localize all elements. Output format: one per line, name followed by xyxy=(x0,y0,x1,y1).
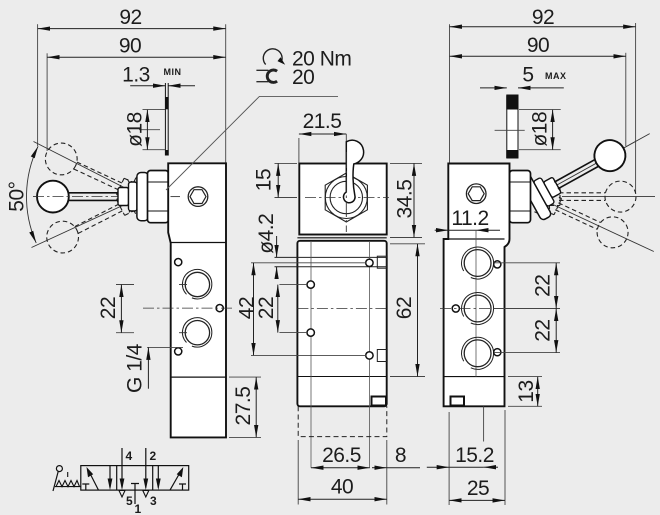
centerline horizontal front xyxy=(305,197,389,199)
dim 22 center xyxy=(277,285,279,333)
mounting nut (left view) xyxy=(148,171,169,223)
side port top (G 1/4) xyxy=(182,269,211,298)
svg-text:5: 5 xyxy=(522,64,533,87)
dim o4.2 leader arrows xyxy=(276,236,278,257)
lever rays right xyxy=(536,134,655,252)
svg-text:G 1/4: G 1/4 xyxy=(124,343,147,393)
left cell blocked port xyxy=(82,484,89,490)
dashed sub-base outline xyxy=(298,406,387,436)
svg-text:8: 8 xyxy=(395,444,406,467)
svg-text:40: 40 xyxy=(331,476,353,499)
svg-text:ø18: ø18 xyxy=(529,112,552,147)
side tab top right xyxy=(377,256,387,268)
svg-text:90: 90 xyxy=(527,34,549,57)
dims 34.5 / 62 xyxy=(390,163,425,376)
exhaust 3 triangle xyxy=(143,491,149,498)
svg-text:11.2: 11.2 xyxy=(451,207,488,230)
dim o18 right xyxy=(495,110,561,150)
svg-text:92: 92 xyxy=(119,6,141,29)
dim 15 xyxy=(277,163,279,197)
collar A xyxy=(118,188,129,206)
solid lever right (raised) xyxy=(519,127,636,221)
port 2 line xyxy=(145,448,147,488)
dashed lever position up xyxy=(38,179,147,264)
svg-text:5: 5 xyxy=(126,494,133,508)
svg-text:22: 22 xyxy=(255,297,278,319)
port 4 line xyxy=(121,448,123,488)
svg-text:3: 3 xyxy=(150,494,157,508)
dashed lever right down xyxy=(534,185,633,253)
svg-text:15: 15 xyxy=(253,169,276,191)
lever actuator symbol xyxy=(56,466,62,472)
dim 27.5 xyxy=(229,377,261,437)
dim 90 left: dimension line xyxy=(47,56,226,58)
side port bottom (G 1/4) xyxy=(182,318,211,347)
svg-text:2: 2 xyxy=(150,449,157,463)
dim 92 left: dimension line xyxy=(38,28,226,30)
dashed lever right horizontal xyxy=(541,181,636,212)
exhaust 5 triangle xyxy=(119,491,125,498)
svg-text:25: 25 xyxy=(467,477,489,500)
wrench symbol xyxy=(256,70,277,82)
dim 92 left: extension lines xyxy=(38,24,226,162)
extension lines 42/22 xyxy=(251,263,366,356)
dim 15 extensions xyxy=(275,162,298,164)
svg-text:15.2: 15.2 xyxy=(455,444,494,467)
label plate xyxy=(372,397,387,406)
mounting nut right view xyxy=(510,171,531,223)
dashed lever position down xyxy=(37,132,146,214)
pilot hole lines xyxy=(275,256,387,258)
label plate right xyxy=(451,397,465,406)
svg-text:1: 1 xyxy=(135,502,142,515)
dims 22/22 right xyxy=(494,263,560,353)
body centerline xyxy=(143,307,232,309)
svg-text:22: 22 xyxy=(97,297,120,319)
right cell arrow xyxy=(170,470,182,490)
centerline vertical front xyxy=(345,152,347,232)
top section body (front) xyxy=(299,164,386,235)
svg-text:MIN: MIN xyxy=(164,67,182,77)
port column line xyxy=(475,230,477,376)
right view: redraw edges xyxy=(444,238,505,240)
50 deg arc xyxy=(26,146,38,243)
dim 13 xyxy=(508,377,542,407)
torque symbol arc xyxy=(263,49,282,65)
ports right view xyxy=(462,247,494,279)
left cell down flow xyxy=(109,466,111,488)
lever ball + shaft front (teardrop) xyxy=(343,140,363,203)
hex socket right view xyxy=(466,184,486,204)
dims 92/90 right: extensions xyxy=(450,23,636,193)
screw holes left view xyxy=(175,259,182,266)
svg-text:21.5: 21.5 xyxy=(303,110,342,133)
right cell down flow xyxy=(157,466,159,488)
port 1 line xyxy=(131,484,139,505)
valve body (right view) xyxy=(444,164,510,407)
svg-text:MAX: MAX xyxy=(545,71,567,81)
svg-text:ø4.2: ø4.2 xyxy=(255,214,278,254)
panel bar (right view, 5 thick) xyxy=(506,95,518,158)
dim o18 left: extensions xyxy=(139,110,165,150)
dim o18 left: dimension line xyxy=(146,110,148,150)
svg-text:92: 92 xyxy=(532,6,554,29)
screws right view xyxy=(494,261,501,268)
valve body (left view) xyxy=(168,163,226,437)
svg-text:27.5: 27.5 xyxy=(232,387,255,426)
dim 42 xyxy=(253,263,255,356)
end cap line xyxy=(171,376,226,378)
right cell blocked port xyxy=(0,0,1,1)
centerline lower body xyxy=(297,308,386,310)
panel bar (left view, 1.3 thick) xyxy=(165,83,169,156)
dim 22 left view xyxy=(116,285,134,333)
flange xyxy=(137,173,149,221)
svg-text:50°: 50° xyxy=(6,181,29,211)
dim 21.5 xyxy=(299,133,346,135)
side tab bottom right xyxy=(377,350,387,362)
svg-text:ø18: ø18 xyxy=(124,112,147,147)
G 1/4 leader xyxy=(147,346,183,348)
leader line to nut xyxy=(166,96,338,190)
svg-text:20: 20 xyxy=(292,66,314,89)
mid interface line xyxy=(297,376,386,378)
nut circles xyxy=(325,177,367,219)
dim 1.3 MIN: dimension line with outside arrows xyxy=(130,85,195,87)
dim 5 MAX xyxy=(480,87,564,89)
lower body (center view) xyxy=(297,241,386,406)
lever ball xyxy=(37,181,69,213)
svg-text:62: 62 xyxy=(393,297,416,319)
svg-text:22: 22 xyxy=(532,319,555,341)
svg-text:34.5: 34.5 xyxy=(394,180,417,219)
svg-text:26.5: 26.5 xyxy=(322,444,361,467)
svg-text:4: 4 xyxy=(126,449,133,463)
svg-text:1.3: 1.3 xyxy=(122,64,150,87)
hex socket port (left view top) xyxy=(188,187,208,207)
mounting holes o4.2 xyxy=(307,281,314,288)
svg-text:22: 22 xyxy=(532,275,555,297)
interface line top section xyxy=(171,242,226,244)
dims 15.2 / 25 xyxy=(449,406,505,505)
centerline right body xyxy=(440,308,512,310)
50 deg rays xyxy=(32,142,143,248)
lower body top line xyxy=(297,237,386,239)
hex nut front xyxy=(325,173,367,222)
collar B xyxy=(129,182,138,211)
hole column lines xyxy=(310,241,312,468)
svg-text:90: 90 xyxy=(119,35,141,58)
lever axis centerline xyxy=(33,196,179,198)
valve box xyxy=(81,466,189,491)
lever shaft xyxy=(66,193,119,201)
dims 26.5 / 8 / 40 xyxy=(298,440,387,505)
svg-text:13: 13 xyxy=(515,380,538,402)
dim 11.2 xyxy=(435,229,449,231)
left cell arrow xyxy=(89,471,99,491)
